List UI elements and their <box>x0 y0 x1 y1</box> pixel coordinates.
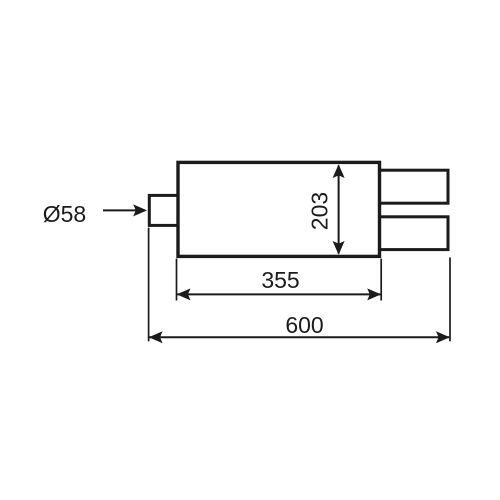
svg-text:600: 600 <box>285 312 323 338</box>
svg-text:Ø58: Ø58 <box>43 201 86 227</box>
svg-text:355: 355 <box>261 267 299 293</box>
svg-text:203: 203 <box>306 192 332 230</box>
